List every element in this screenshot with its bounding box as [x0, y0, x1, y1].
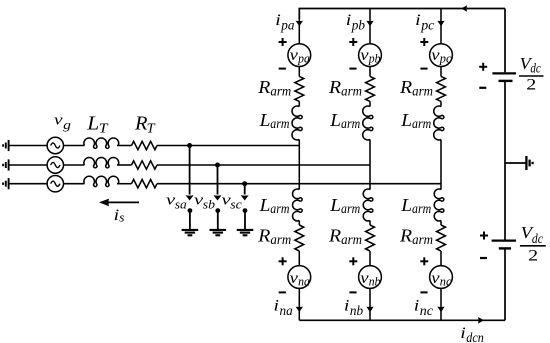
resistor R_arm lower b — [366, 225, 375, 251]
svg-text:arm: arm — [270, 84, 291, 99]
minus sign v_pc — [420, 68, 427, 70]
wire L_arm to R_arm lower c — [440, 221, 442, 226]
AC source v_g phase c — [47, 176, 63, 192]
wire R_arm to L_arm upper a — [298, 101, 300, 106]
label R_arm upper c — [399, 77, 433, 99]
svg-text:R: R — [134, 112, 148, 134]
svg-text:dc: dc — [530, 62, 541, 77]
arrow i_dcp on top rail — [461, 5, 467, 12]
arrow v_sb — [214, 165, 222, 201]
svg-text:i: i — [344, 298, 350, 315]
label R_arm lower a — [257, 226, 291, 248]
label V_dc upper — [520, 54, 542, 77]
svg-text:na: na — [298, 274, 310, 288]
label V_dc lower — [521, 223, 544, 247]
ground v_sc — [237, 230, 254, 235]
fraction bar upper — [519, 75, 544, 77]
resistor R_arm upper a — [295, 76, 304, 101]
svg-text:pb: pb — [351, 19, 365, 34]
plus sign v_na — [279, 257, 287, 265]
resistor R_T phase a — [132, 141, 158, 149]
inductor L_T phase a — [84, 138, 119, 148]
minus sign v_na — [279, 291, 286, 293]
node junction phase b rail — [215, 163, 220, 168]
svg-text:nb: nb — [350, 304, 363, 319]
wire L_arm upper to phase node c — [440, 140, 442, 190]
svg-text:arm: arm — [270, 233, 291, 248]
svg-text:arm: arm — [341, 233, 362, 248]
fraction bar lower — [520, 245, 546, 247]
resistor R_arm upper b — [366, 76, 375, 101]
minus sign v_nb — [349, 291, 356, 293]
label i_pa — [275, 12, 294, 34]
node dot v_sb — [215, 208, 220, 213]
plus sign v_pb — [349, 38, 357, 46]
arrow i_pc — [437, 21, 444, 27]
inductor L_T phase c — [84, 176, 119, 186]
label v_sb — [194, 193, 216, 212]
minus sign v_pa — [279, 68, 286, 70]
svg-text:v: v — [290, 47, 298, 64]
resistor R_arm upper c — [437, 76, 446, 101]
svg-text:L: L — [400, 195, 412, 215]
wire L_T to R_T phase a — [117, 145, 132, 147]
svg-text:nc: nc — [420, 304, 434, 319]
ground v_sb — [210, 230, 227, 235]
svg-text:v: v — [360, 270, 368, 287]
ground (AC source phase b) — [3, 159, 9, 170]
svg-text:L: L — [259, 110, 271, 130]
label R_T — [134, 112, 156, 136]
node junction phase a rail — [187, 143, 192, 148]
label v_na — [290, 270, 310, 289]
svg-text:nb: nb — [369, 274, 381, 288]
svg-text:pa: pa — [297, 52, 310, 66]
wire v_sa to ground — [189, 211, 191, 230]
label L_arm lower a — [259, 195, 290, 217]
label L_arm lower c — [400, 195, 431, 217]
plus sign v_nb — [349, 257, 357, 265]
label v_pc — [431, 47, 452, 66]
svg-text:v: v — [431, 270, 439, 287]
svg-text:na: na — [280, 304, 293, 319]
arrow i_nc — [437, 307, 444, 313]
label R_arm upper b — [328, 77, 362, 99]
label v_sc — [222, 193, 243, 212]
wire source to L_T phase b — [64, 164, 85, 166]
wire L_T to R_T phase b — [117, 164, 132, 166]
svg-text:i: i — [415, 12, 421, 29]
wire R_T to leg phase b — [157, 164, 370, 166]
label i_na — [274, 298, 293, 319]
voltage source v_pb — [359, 44, 382, 67]
label v_g — [54, 112, 72, 132]
label i_s — [114, 207, 125, 225]
wire dc link middle — [504, 82, 506, 240]
voltage source v_na — [288, 266, 311, 289]
label 2 upper — [526, 77, 536, 94]
wire leg b from top rail — [369, 9, 371, 44]
plus sign v_nc — [420, 257, 428, 265]
wire R_arm to L_arm upper b — [369, 101, 371, 106]
svg-text:R: R — [399, 226, 412, 246]
ground v_sa — [182, 230, 199, 235]
wire ground to source phase b — [9, 164, 48, 166]
wire R_T to leg phase c — [157, 183, 441, 185]
wire v_sb to ground — [217, 211, 219, 230]
AC source v_g phase a — [47, 137, 63, 153]
minus sign v_nc — [420, 291, 427, 293]
label v_sa — [166, 193, 187, 212]
wire L_arm upper to phase node a — [298, 140, 300, 190]
arrow i_dcn on bottom rail — [478, 317, 484, 324]
svg-text:L: L — [400, 110, 412, 130]
arrow i_s — [99, 199, 139, 207]
wire L_arm to R_arm lower a — [298, 221, 300, 226]
node dot v_sc — [243, 208, 248, 213]
svg-text:sa: sa — [175, 197, 188, 212]
voltage source v_nc — [430, 266, 453, 289]
wire top dc rail — [299, 9, 505, 19]
plus sign Vdc upper — [479, 63, 487, 71]
svg-text:R: R — [328, 77, 341, 97]
label v_nc — [431, 270, 452, 289]
svg-text:L: L — [86, 112, 99, 134]
resistor R_arm lower a — [295, 225, 304, 251]
svg-text:i: i — [114, 207, 120, 224]
resistor R_T phase c — [132, 180, 158, 188]
svg-text:v: v — [360, 47, 368, 64]
svg-text:pc: pc — [420, 19, 435, 34]
inductor L_arm upper b — [363, 106, 373, 140]
svg-text:L: L — [329, 110, 341, 130]
voltage source v_pc — [430, 44, 453, 67]
wire source to bottom rail a — [298, 288, 300, 320]
svg-text:i: i — [414, 298, 420, 315]
node junction phase c rail — [242, 181, 247, 186]
svg-text:arm: arm — [270, 117, 289, 132]
svg-text:v: v — [431, 47, 439, 64]
label i_pb — [346, 12, 365, 34]
wire leg c from top rail — [440, 9, 442, 44]
wire dc link to bottom rail — [504, 250, 506, 321]
svg-text:arm: arm — [341, 84, 362, 99]
svg-text:nc: nc — [440, 274, 452, 288]
svg-text:pb: pb — [368, 52, 381, 66]
inductor L_T phase b — [84, 158, 119, 168]
svg-text:sb: sb — [203, 197, 216, 212]
svg-text:i: i — [274, 298, 280, 315]
svg-text:arm: arm — [412, 202, 431, 217]
wire to midpoint ground — [505, 162, 526, 164]
ground dc midpoint — [526, 156, 532, 170]
wire L_T to R_T phase c — [117, 183, 132, 185]
svg-text:2: 2 — [528, 248, 538, 265]
svg-text:R: R — [328, 226, 341, 246]
inductor L_arm lower b — [363, 189, 373, 221]
minus sign Vdc upper — [479, 87, 486, 89]
svg-text:T: T — [99, 122, 109, 137]
wire R_arm to source lower c — [440, 251, 442, 266]
svg-text:T: T — [147, 122, 156, 137]
wire source to bottom rail b — [369, 288, 371, 320]
svg-text:pc: pc — [439, 52, 452, 66]
label L_arm upper c — [400, 110, 431, 132]
label L_T — [86, 112, 109, 136]
wire source to R_arm upper c — [440, 67, 442, 77]
resistor R_arm lower c — [437, 225, 446, 251]
wire ground to source phase c — [9, 183, 48, 185]
arrow i_nb — [366, 307, 373, 313]
wire source to bottom rail c — [440, 288, 442, 320]
label v_pa — [290, 47, 310, 66]
node dot v_sa — [188, 208, 193, 213]
label R_arm upper a — [257, 77, 291, 99]
label L_arm upper a — [259, 110, 290, 132]
label L_arm lower b — [329, 195, 360, 217]
label R_arm lower b — [328, 226, 362, 248]
svg-text:arm: arm — [270, 202, 289, 217]
arrow i_na — [296, 307, 303, 313]
wire R_arm to source lower a — [298, 251, 300, 266]
plus sign v_pc — [420, 38, 428, 46]
svg-text:i: i — [346, 12, 352, 29]
plus sign v_pa — [279, 38, 287, 46]
inductor L_arm upper c — [434, 106, 444, 140]
dc source upper (battery) — [492, 73, 516, 81]
svg-text:v: v — [290, 270, 298, 287]
arrow v_sa — [186, 146, 194, 201]
ground (AC source phase a) — [3, 140, 9, 151]
svg-text:i: i — [460, 325, 466, 342]
label L_arm upper b — [329, 110, 360, 132]
voltage source v_pa — [288, 44, 311, 67]
wire bottom dc rail — [299, 319, 505, 321]
label v_nb — [360, 270, 380, 289]
AC source v_g phase b — [47, 157, 63, 173]
svg-text:R: R — [257, 77, 270, 97]
svg-text:g: g — [63, 117, 71, 132]
wire R_arm to L_arm upper c — [440, 101, 442, 106]
svg-text:v: v — [54, 112, 63, 128]
svg-text:arm: arm — [412, 233, 433, 248]
wire source to L_T phase a — [64, 145, 85, 147]
wire v_sc to ground — [244, 211, 246, 230]
svg-text:L: L — [259, 195, 271, 215]
svg-text:sc: sc — [230, 197, 242, 212]
resistor R_T phase b — [132, 161, 158, 169]
voltage source v_nb — [359, 266, 382, 289]
label R_arm lower c — [399, 226, 433, 248]
wire ground to source phase a — [9, 145, 48, 147]
svg-text:s: s — [119, 210, 124, 225]
wire leg a from top rail — [298, 9, 300, 44]
inductor L_arm lower c — [434, 189, 444, 221]
svg-text:pa: pa — [280, 19, 294, 34]
arrow i_pb — [366, 21, 373, 27]
wire dc link upper — [504, 9, 506, 73]
svg-text:dcn: dcn — [466, 331, 484, 343]
svg-text:arm: arm — [412, 84, 433, 99]
wire source to R_arm upper a — [298, 67, 300, 77]
svg-text:arm: arm — [412, 117, 431, 132]
arrow v_sc — [241, 184, 249, 201]
svg-text:dc: dc — [532, 232, 544, 247]
label v_pb — [360, 47, 380, 66]
plus sign Vdc lower — [480, 232, 488, 240]
svg-text:arm: arm — [341, 117, 360, 132]
arrow i_pa — [296, 21, 303, 27]
minus sign Vdc lower — [480, 257, 487, 259]
svg-text:R: R — [399, 77, 412, 97]
svg-text:arm: arm — [341, 202, 360, 217]
wire R_T to leg phase a — [157, 145, 299, 147]
ground (AC source phase c) — [3, 178, 9, 189]
svg-text:2: 2 — [526, 77, 536, 94]
label i_nc — [414, 298, 434, 319]
svg-text:R: R — [257, 226, 270, 246]
wire R_arm to source lower b — [369, 251, 371, 266]
label i_pc — [415, 12, 435, 34]
label 2 lower — [528, 248, 538, 265]
wire L_arm to R_arm lower b — [369, 221, 371, 226]
dc source lower (battery) — [492, 241, 516, 249]
minus sign v_pb — [349, 68, 356, 70]
inductor L_arm upper a — [292, 106, 302, 140]
wire L_arm upper to phase node b — [369, 140, 371, 190]
wire source to L_T phase c — [64, 183, 85, 185]
wire source to R_arm upper b — [369, 67, 371, 77]
svg-text:i: i — [275, 12, 281, 29]
label i_nb — [344, 298, 363, 319]
svg-text:L: L — [329, 195, 341, 215]
inductor L_arm lower a — [293, 189, 303, 221]
label i_dcn — [460, 325, 484, 343]
